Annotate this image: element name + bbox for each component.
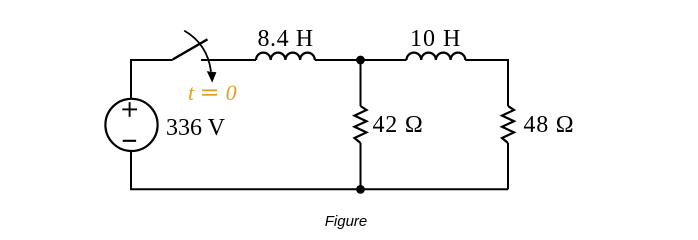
- svg-text:336 V: 336 V: [166, 115, 226, 141]
- resistor R1 42 ohm zigzag: [355, 106, 367, 143]
- svg-text:42 Ω: 42 Ω: [373, 112, 424, 138]
- wire middle vertical (resistor R1 to bottom node): [360, 143, 362, 189]
- svg-text:0: 0: [226, 80, 237, 105]
- wire bottom horizontal: [130, 188, 508, 190]
- switch arrowhead: [207, 71, 217, 82]
- label t = 0 : equals sign: [202, 90, 217, 95]
- svg-text:Figure: Figure: [325, 213, 368, 230]
- svg-text:8.4 H: 8.4 H: [258, 26, 314, 52]
- svg-text:10 H: 10 H: [410, 26, 461, 52]
- voltage source plus sign: [122, 102, 137, 117]
- wire right vertical (corner to resistor R2): [507, 59, 509, 106]
- svg-text:48 Ω: 48 Ω: [523, 112, 574, 138]
- wire left vertical (source to bottom corner): [130, 151, 132, 189]
- wire top (node A to 10H coil): [361, 59, 407, 61]
- voltage source minus sign: [123, 140, 136, 142]
- voltage source V circle: [105, 99, 157, 151]
- inductor 10 H coil: [407, 53, 466, 60]
- wire left vertical (top corner to source): [130, 59, 132, 99]
- switch blade: [173, 39, 208, 59]
- wire top-left horizontal: [131, 59, 173, 61]
- wire top (8.4H coil to node A): [315, 59, 361, 61]
- bottom junction dot: [356, 185, 365, 194]
- switch arrow arc: [184, 31, 211, 72]
- svg-text:t: t: [188, 80, 195, 105]
- wire top (switch to 8.4H coil): [201, 59, 256, 61]
- inductor 8.4 H coil: [256, 53, 315, 60]
- wire middle vertical (node A to resistor R1): [360, 59, 362, 106]
- resistor R2 48 ohm zigzag: [502, 106, 514, 143]
- wire right vertical (resistor R2 to bottom corner): [507, 143, 509, 189]
- node A junction dot: [356, 56, 365, 65]
- wire top (10H coil to right corner): [465, 59, 508, 61]
